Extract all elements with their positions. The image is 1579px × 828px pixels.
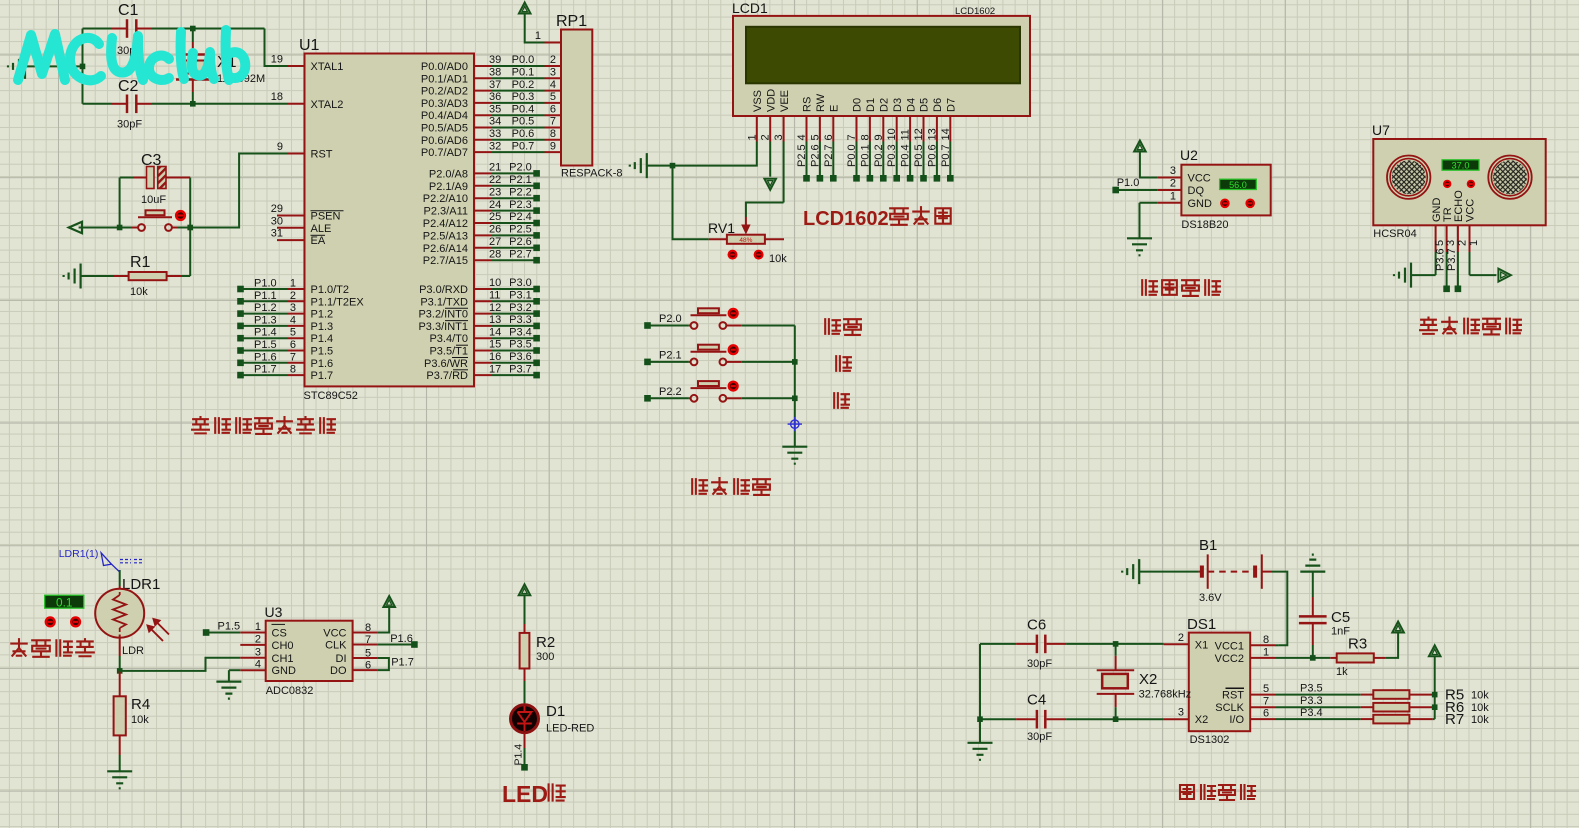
wire: button left [79,227,131,229]
wire U2 GND to ground [1140,202,1158,204]
svg-text:P2.1/A9: P2.1/A9 [429,181,468,193]
pin U3 CLK (7) [353,644,378,646]
svg-text:R3: R3 [1348,636,1367,653]
pin P2.6 (27) + terminal [474,247,492,249]
wire LCD D4 to P0.4 terminal [909,142,911,179]
svg-text:P0.0: P0.0 [846,144,858,167]
svg-text:6: 6 [823,134,835,140]
pin P3.2 (12) + terminal [474,313,492,315]
svg-text:P0.2/AD2: P0.2/AD2 [421,86,468,98]
svg-text:R4: R4 [131,696,150,713]
wire DS1 net P3.5 [1275,694,1361,696]
caption 单片机最小系统 [192,417,209,433]
wire U3 GND to ground [229,669,240,671]
caption 加 [836,356,851,371]
svg-text:10k: 10k [131,714,149,726]
svg-text:VSS: VSS [752,90,764,112]
svg-text:P0.2: P0.2 [512,79,535,91]
capacitor C5 [1312,572,1314,597]
pin DS1 X1 (2) [1164,643,1189,645]
svg-text:DS18B20: DS18B20 [1181,219,1228,231]
svg-text:P1.2: P1.2 [311,309,334,321]
svg-text:48%: 48% [739,237,752,244]
svg-text:C5: C5 [1331,609,1350,626]
pin XTAL2 18 [288,103,305,105]
push-button P2.2 [644,395,651,402]
svg-text:P3.7: P3.7 [1446,248,1458,271]
svg-text:0.1: 0.1 [56,596,72,610]
svg-text:11: 11 [900,129,912,140]
svg-text:P1.1/T2EX: P1.1/T2EX [311,296,365,308]
wire U7 TR to P3.6 [1446,252,1448,289]
wire LCD D7 to P0.7 terminal [949,142,951,179]
svg-text:4: 4 [796,134,808,140]
svg-text:P3.5: P3.5 [509,339,532,351]
svg-text:X2: X2 [1195,714,1208,726]
pin P2.0 (21) + terminal [474,172,492,174]
svg-text:P3.7: P3.7 [509,363,532,375]
svg-text:3.6V: 3.6V [1199,592,1222,604]
wire pullup bus to power [1434,657,1436,720]
pin P3.5 (15) + terminal [474,350,492,352]
ground (C5 top, inverted) [1300,555,1325,572]
svg-text:29: 29 [271,203,283,215]
svg-text:8: 8 [550,128,556,140]
svg-text:3: 3 [773,134,785,140]
svg-text:P1.5: P1.5 [311,346,334,358]
push-button P2.0 [644,322,651,329]
svg-text:STC89C52: STC89C52 [304,390,358,402]
svg-text:P1.5: P1.5 [254,339,277,351]
pin U3 VCC (8) [353,632,378,634]
svg-text:ALE: ALE [311,223,332,235]
pin U2 DQ 2 [1157,189,1181,191]
resistor R7 10k [1361,718,1374,720]
resistor R6 10k [1361,706,1374,708]
svg-text:D7: D7 [946,98,958,112]
svg-text:CLK: CLK [325,640,347,652]
svg-text:P3.0: P3.0 [509,277,532,289]
svg-text:P0.7: P0.7 [940,144,952,167]
svg-text:P1.7: P1.7 [254,364,277,376]
svg-text:8: 8 [1263,634,1269,646]
svg-text:P3.4: P3.4 [509,326,532,338]
pin U3 GND (4) [240,669,265,671]
svg-text:X1: X1 [1195,639,1208,651]
svg-text:4: 4 [255,659,261,671]
svg-text:GND: GND [1188,198,1213,210]
caption 测温模块 [1142,280,1157,295]
svg-text:VCC2: VCC2 [1215,653,1244,665]
svg-text:7: 7 [846,134,858,140]
svg-text:P0.5: P0.5 [913,144,925,167]
svg-text:D3: D3 [892,98,904,112]
svg-text:XTAL2: XTAL2 [311,99,344,111]
svg-text:P3.6/WR: P3.6/WR [424,358,468,370]
svg-text:5: 5 [290,327,296,339]
svg-text:P1.0/T2: P1.0/T2 [311,284,350,296]
power (LCD VDD, down arrow) [769,142,771,177]
svg-text:P2.1: P2.1 [659,349,682,361]
svg-text:32: 32 [489,140,501,152]
pin P1.6 (7) + terminal [237,360,244,367]
svg-text:VCC1: VCC1 [1215,640,1244,652]
power (R2 top) [519,584,531,595]
svg-text:C6: C6 [1027,616,1046,633]
svg-text:12: 12 [489,302,501,314]
svg-text:7: 7 [290,351,296,363]
svg-text:P3.2: P3.2 [509,302,532,314]
svg-text:P2.5: P2.5 [509,224,532,236]
svg-text:P1.6: P1.6 [254,351,277,363]
svg-text:10k: 10k [130,286,148,298]
svg-text:R2: R2 [536,634,555,651]
svg-text:DI: DI [336,653,347,665]
pin U3 DI (5) [353,657,378,659]
svg-text:P2.0/A8: P2.0/A8 [429,168,468,180]
svg-text:6: 6 [365,660,371,672]
svg-text:P0.0: P0.0 [512,54,535,66]
svg-text:3: 3 [1170,165,1176,177]
power (RP1 pin1) [519,3,531,14]
svg-text:P2.6: P2.6 [509,236,532,248]
svg-text:23: 23 [489,186,501,198]
wire C6 to DS1 X1 [1116,643,1164,645]
pin RST 9 [288,153,305,155]
svg-text:VDD: VDD [765,89,777,112]
svg-text:RS: RS [802,97,814,112]
svg-text:P1.3: P1.3 [311,321,334,333]
pin P0.3 (36) wire to RP1 [474,102,492,104]
svg-text:15: 15 [489,339,501,351]
pin P1.5 (6) + terminal [237,347,244,354]
pin DS1 I/O (6) [1250,718,1275,720]
svg-text:P1.5: P1.5 [218,621,241,633]
pin P2.7 (28) + terminal [474,259,492,261]
svg-text:D2: D2 [879,98,891,112]
svg-text:2: 2 [290,290,296,302]
svg-text:37: 37 [489,79,501,91]
svg-text:P3.0/RXD: P3.0/RXD [419,284,468,296]
svg-text:P0.0/AD0: P0.0/AD0 [421,61,468,73]
wire U7 ECHO to P3.7 [1457,252,1459,289]
ground (crystal net, left) [8,54,25,79]
svg-text:E: E [829,105,841,112]
svg-text:P0.7: P0.7 [512,140,535,152]
wire LCD D6 to P0.6 terminal [936,142,938,179]
wire LCD D2 to P0.2 terminal [882,142,884,179]
svg-text:P0.4: P0.4 [900,144,912,167]
svg-text:R7: R7 [1445,711,1464,728]
svg-text:6: 6 [1263,708,1269,720]
svg-text:CH1: CH1 [272,653,294,665]
wire LCD RW to P2.6 terminal [819,142,821,179]
pin P3.4 (14) + terminal [474,337,492,339]
svg-text:3: 3 [1445,240,1457,246]
wiper arrow RV1 [745,217,747,228]
pin P2.1 (22) + terminal [474,185,492,187]
pin U3 DO (6) [353,669,378,671]
svg-text:10k: 10k [1471,689,1489,701]
svg-text:30: 30 [271,215,283,227]
pin P3.6 (16) + terminal [474,362,492,364]
wire: cap left vertical net [25,65,83,67]
svg-text:LCD1602: LCD1602 [955,6,995,17]
pin P1.2 (3) + terminal [237,310,244,317]
caption 设置 [825,319,840,334]
pin XTAL1 19 [288,65,305,67]
node P1.0 terminal [1112,187,1119,194]
capacitor C1 [83,28,112,30]
svg-text:P3.6: P3.6 [509,351,532,363]
svg-text:P2.6: P2.6 [809,144,821,167]
svg-text:P3.4/T0: P3.4/T0 [429,333,468,345]
svg-text:P0.2: P0.2 [873,144,885,167]
svg-text:39: 39 [489,54,501,66]
svg-text:P3.1: P3.1 [509,290,532,302]
display U7 value 37.0 [1442,160,1479,170]
wire LCD RS to P2.5 terminal [806,142,808,179]
svg-text:P0.4/AD4: P0.4/AD4 [421,110,468,122]
wire LCD D0 to P0.0 terminal [856,142,858,179]
wire DS1 net P3.3 [1275,706,1361,708]
wire VSS-net down to RV1 [673,166,709,240]
svg-text:2: 2 [550,54,556,66]
wire D1 to P1.4 terminal [524,733,526,748]
pin U3 CS (1) [240,632,265,634]
svg-text:31: 31 [271,228,283,240]
caption 独立按键 [692,479,707,494]
svg-text:P1.0: P1.0 [254,278,277,290]
pin P2.4 (25) + terminal [474,222,492,224]
svg-text:HCSR04: HCSR04 [1373,228,1416,240]
svg-text:P2.3/A11: P2.3/A11 [424,206,468,218]
svg-text:2: 2 [255,633,261,645]
svg-text:P0.7/AD7: P0.7/AD7 [421,147,468,159]
svg-text:1: 1 [1170,190,1176,202]
svg-text:P1.4: P1.4 [254,327,277,339]
svg-text:P1.1: P1.1 [254,290,277,302]
svg-text:10k: 10k [1471,714,1489,726]
svg-text:C1: C1 [118,2,139,19]
svg-text:13: 13 [489,314,501,326]
svg-text:P2.0: P2.0 [659,313,682,325]
pin ALE 30 [277,227,305,229]
svg-text:34: 34 [489,116,501,128]
pin P1.0 (1) + terminal [237,286,244,293]
svg-text:P2.7/A15: P2.7/A15 [423,255,468,267]
svg-text:D6: D6 [932,98,944,112]
svg-text:25: 25 [489,211,501,223]
pin DS1 X2 (3) [1164,718,1189,720]
pin EA 31 [277,239,305,241]
svg-text:XTAL1: XTAL1 [311,61,344,73]
pin P2.3 (24) + terminal [474,210,492,212]
svg-text:RST: RST [311,149,333,161]
svg-text:P3.5: P3.5 [1300,682,1323,694]
svg-text:14: 14 [489,326,501,338]
caption 光照调节 [11,639,26,656]
svg-text:8: 8 [290,364,296,376]
wire R3 to power [1386,633,1398,658]
ground (U7) [1394,263,1411,288]
wire B1 to DS1 VCC1 [1262,571,1272,573]
pin RP1-1 [545,42,562,44]
pin P0.2 (37) wire to RP1 [474,90,492,92]
pin P3.1 (11) + terminal [474,300,492,302]
wire C4 to DS1 X2 [1116,718,1164,720]
svg-text:ADC0832: ADC0832 [266,685,314,697]
wire C6/C4 left vertical to ground [979,644,981,743]
caption 时钟模块 [1180,785,1194,799]
ground (B1 left) [1122,559,1139,584]
svg-text:C2: C2 [118,78,139,95]
svg-text:DS1: DS1 [1187,616,1216,633]
svg-text:56.0: 56.0 [1229,180,1247,190]
wire LDR to R4 junction [119,635,121,657]
svg-text:P0.3: P0.3 [512,91,535,103]
svg-text:D1: D1 [865,98,877,112]
svg-text:4: 4 [550,79,556,91]
svg-text:26: 26 [489,224,501,236]
push-button P2.1 [644,359,651,366]
pin P0.0 (39) wire to RP1 [474,65,492,67]
svg-text:18: 18 [271,91,283,103]
svg-text:7: 7 [550,116,556,128]
svg-text:P2.4/A12: P2.4/A12 [423,218,468,230]
svg-text:P2.7: P2.7 [509,248,532,260]
svg-text:P2.5: P2.5 [796,144,808,167]
pin P2.2 (23) + terminal [474,197,492,199]
svg-text:38: 38 [489,67,501,79]
svg-text:P2.2: P2.2 [509,186,532,198]
svg-text:P2.1: P2.1 [509,174,532,186]
svg-text:37.0: 37.0 [1452,161,1470,171]
svg-text:27: 27 [489,236,501,248]
svg-text:D0: D0 [852,98,864,112]
push-button (reset) [138,224,145,231]
ground (C4/C6) [968,743,993,760]
logo MCUclub (cyan) [18,30,245,80]
svg-text:D1: D1 [546,703,565,720]
pin U3 CH0 (2) [240,644,265,646]
display LDR value 0.1 [45,595,84,608]
svg-text:5: 5 [809,134,821,140]
svg-text:10uF: 10uF [141,194,166,206]
wire LCD VEE to RV1 wiper [783,142,785,203]
svg-text:RESPACK-8: RESPACK-8 [561,168,623,180]
pin P3.3 (13) + terminal [474,325,492,327]
svg-text:10: 10 [886,128,898,140]
crystal X2 [1115,644,1117,656]
svg-text:RP1: RP1 [556,13,587,30]
pin P1.7 (8) + terminal [237,372,244,379]
svg-text:P3.2/INT0: P3.2/INT0 [418,309,468,321]
wire U7 GND to ground [1435,252,1437,275]
svg-text:VCC: VCC [1188,173,1211,185]
svg-text:P1.7: P1.7 [311,370,334,382]
svg-text:1: 1 [290,278,296,290]
svg-text:I/O: I/O [1229,714,1244,726]
svg-text:P1.6: P1.6 [311,358,334,370]
pin P0.4 (35) wire to RP1 [474,114,492,116]
pin P0.6 (33) wire to RP1 [474,139,492,141]
svg-text:U2: U2 [1180,147,1198,163]
svg-text:B1: B1 [1199,537,1217,554]
svg-text:P2.3: P2.3 [509,199,532,211]
node: origin marker (blue) [788,417,802,431]
svg-text:EA: EA [311,235,326,247]
svg-text:P0.6/AD6: P0.6/AD6 [421,135,468,147]
LED D1 (LED-RED) [511,705,539,733]
svg-text:LDR: LDR [122,645,144,657]
svg-text:DQ: DQ [1188,185,1205,197]
svg-text:8: 8 [365,622,371,634]
wire LDR junction to U3 CH1 [120,658,241,671]
svg-text:P3.7/RD: P3.7/RD [426,370,468,382]
svg-text:7: 7 [1263,696,1269,708]
svg-text:X2: X2 [1139,671,1157,688]
svg-text:30pF: 30pF [1027,658,1052,670]
svg-text:1: 1 [1468,240,1480,246]
ground (R4) [107,771,132,788]
svg-text:300: 300 [536,651,554,663]
ground (buttons) [782,447,807,464]
svg-text:P2.6/A14: P2.6/A14 [423,243,468,255]
wire button bus to ground [794,326,796,447]
svg-text:33: 33 [489,128,501,140]
svg-text:2: 2 [1178,632,1184,644]
svg-text:1: 1 [255,621,261,633]
ground (U3) [216,682,241,699]
svg-text:P3.3/INT1: P3.3/INT1 [418,321,468,333]
svg-text:35: 35 [489,103,501,115]
svg-text:3: 3 [255,646,261,658]
svg-text:2: 2 [1170,178,1176,190]
ground (LCD VSS) [630,153,647,178]
capacitor C2 [83,103,112,105]
svg-text:12: 12 [913,128,925,140]
svg-text:13: 13 [926,128,938,140]
svg-text:ECHO: ECHO [1453,190,1465,222]
svg-text:P1.7: P1.7 [391,657,414,669]
svg-text:D5: D5 [919,98,931,112]
svg-text:VCC: VCC [323,628,346,640]
svg-text:14: 14 [940,128,952,140]
svg-text:5: 5 [550,91,556,103]
svg-text:5: 5 [1263,683,1269,695]
svg-text:6: 6 [290,339,296,351]
svg-text:3: 3 [1178,707,1184,719]
wire R2 to D1 [524,681,526,703]
svg-text:P2.4: P2.4 [509,211,532,223]
pin U2 VCC 3 [1157,177,1181,179]
resistor R2 [524,624,526,633]
svg-text:16: 16 [489,351,501,363]
pin P1.3 (4) + terminal [237,323,244,330]
svg-text:11: 11 [489,290,500,302]
svg-text:22: 22 [489,174,501,186]
svg-text:LCD1602: LCD1602 [803,208,889,230]
svg-text:R1: R1 [130,254,151,271]
svg-text:LED: LED [502,781,548,807]
svg-text:21: 21 [489,162,501,174]
svg-text:LCD1: LCD1 [732,0,768,16]
ground (R1 left) [64,264,81,289]
svg-text:P2.2/A10: P2.2/A10 [423,193,468,205]
svg-text:9: 9 [873,134,885,140]
svg-text:P0.3: P0.3 [886,144,898,167]
